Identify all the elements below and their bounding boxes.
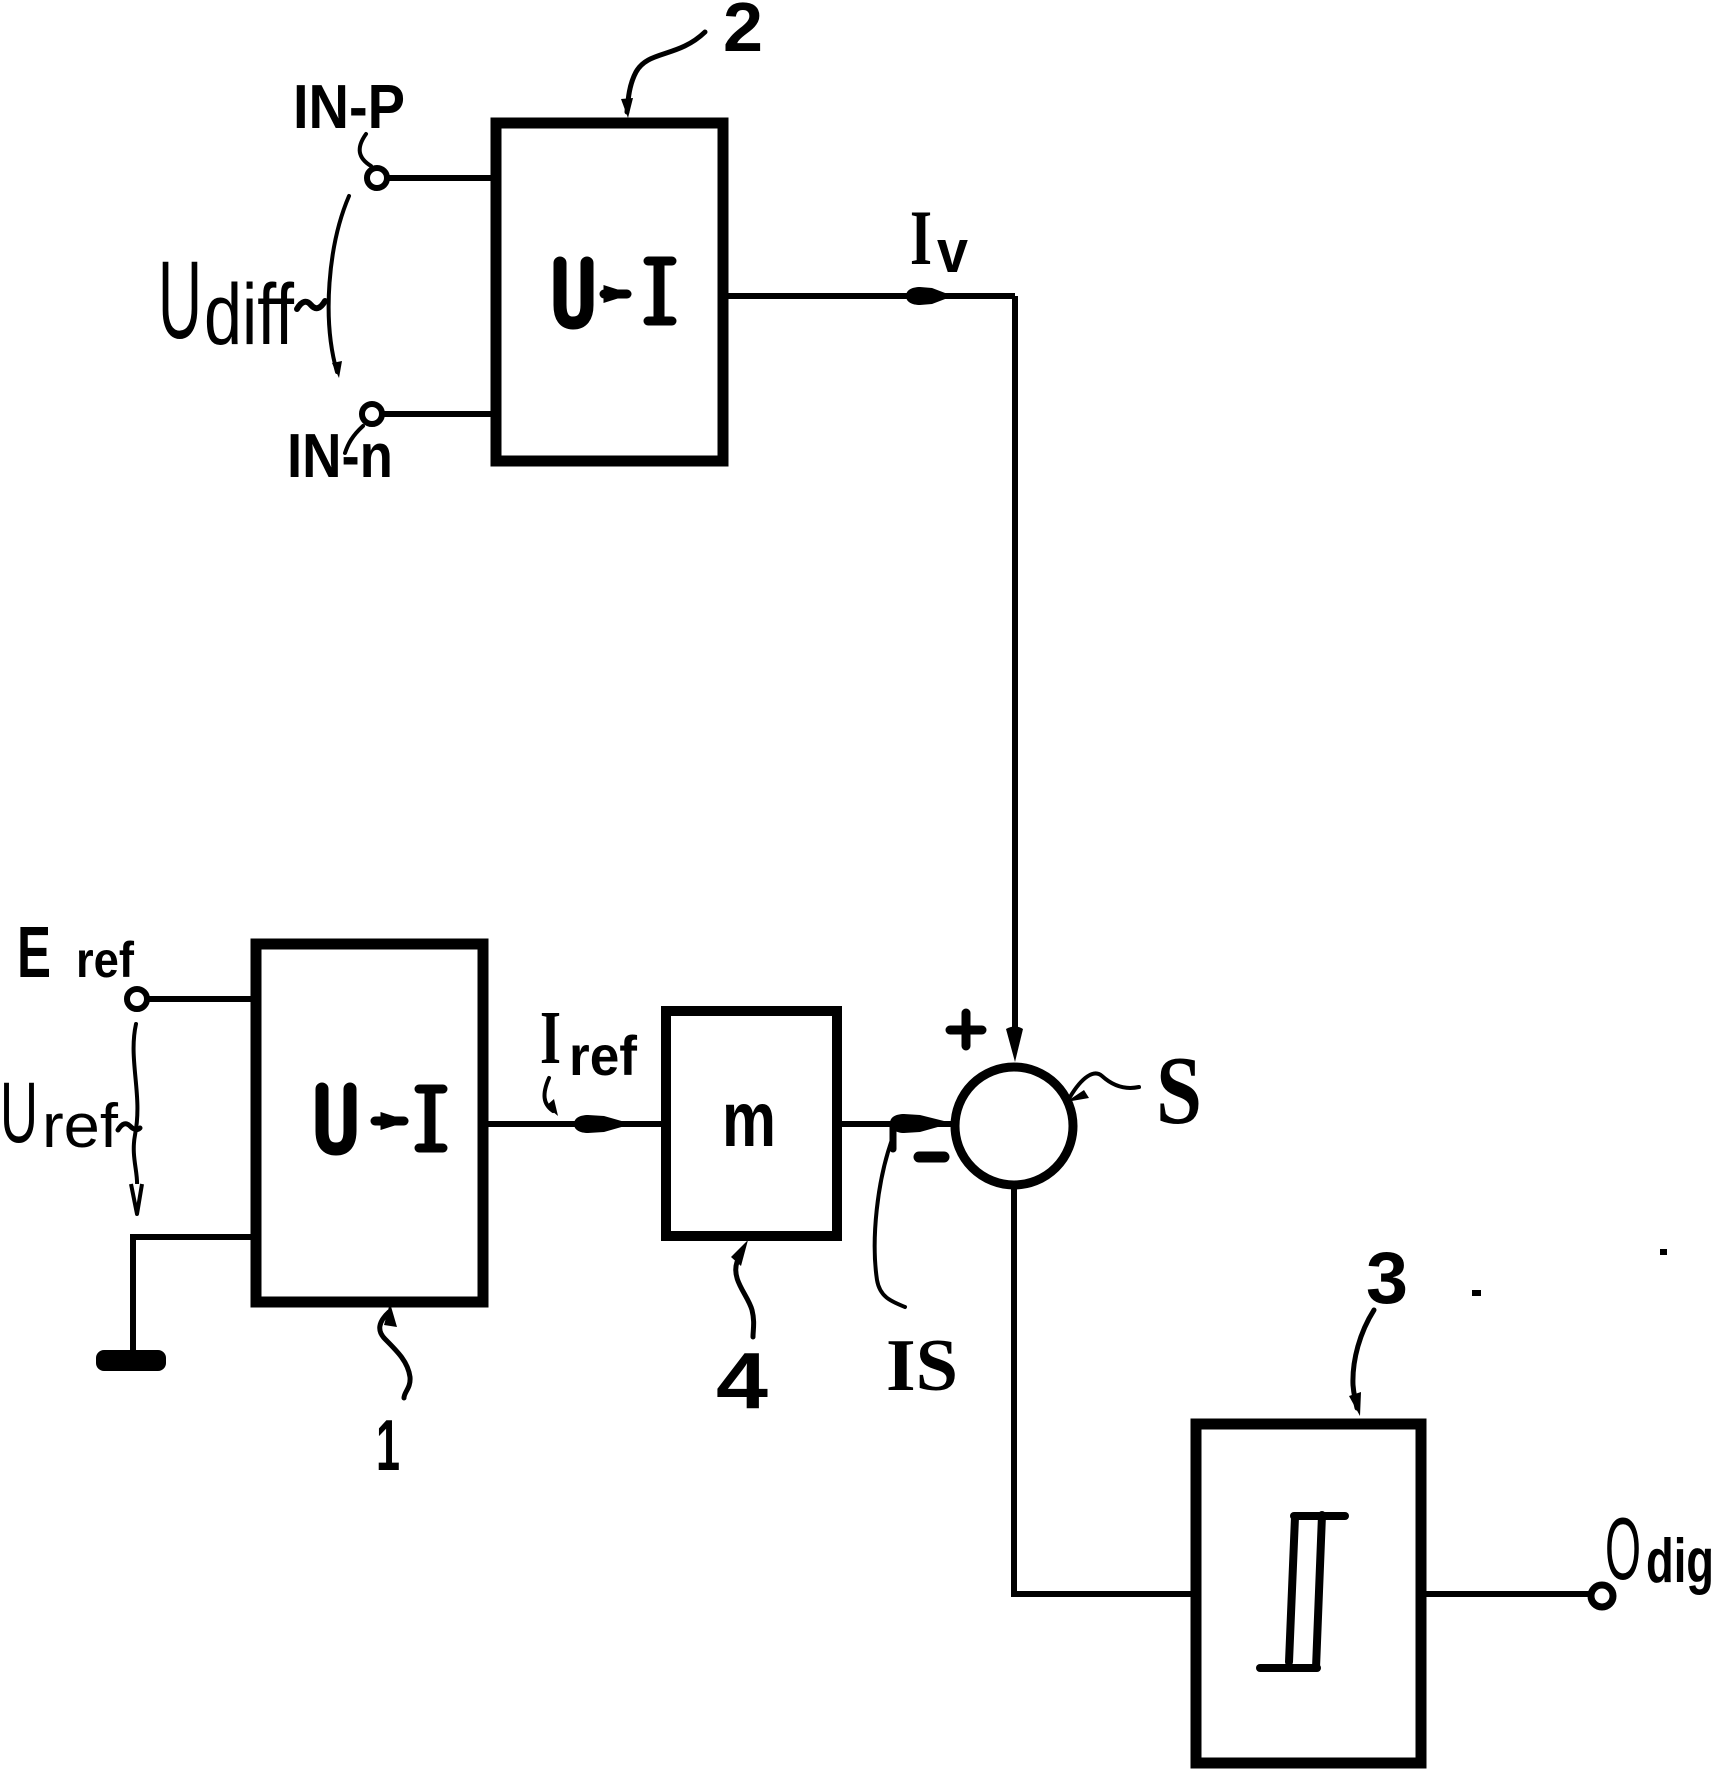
wire Iv vertical down to summer: [1012, 296, 1018, 1035]
leader IN-n: [345, 426, 363, 453]
svg-text:O: O: [1605, 1499, 1641, 1598]
svg-text:m: m: [722, 1075, 776, 1163]
label IS: [886, 1325, 958, 1407]
wire IN-n to block 2: [383, 411, 496, 417]
wire E ref to block 1: [148, 996, 256, 1002]
block 3 comparator with hysteresis: [1196, 1424, 1421, 1763]
terminal IN-n: [362, 404, 382, 424]
svg-text:IN-n: IN-n: [287, 422, 393, 491]
svg-text:diff: diff: [204, 267, 295, 363]
wire block 3 output: [1421, 1591, 1592, 1597]
hysteresis symbol: [1260, 1515, 1345, 1668]
label Iv: [910, 194, 932, 281]
leader line for 4: [736, 1262, 754, 1337]
terminal IN-p: [367, 168, 387, 188]
svg-text:E: E: [17, 913, 51, 993]
leader line for 2: [627, 32, 705, 112]
wire I ref from block1 to m: [483, 1121, 666, 1127]
wire IN-p to block 2: [388, 175, 496, 181]
block U-I converter 2: [496, 123, 723, 461]
svg-text:IN-P: IN-P: [293, 73, 405, 142]
tilde after Udiff: [297, 301, 325, 309]
terminal O dig: [1591, 1585, 1613, 1607]
minus sign: [919, 1152, 944, 1163]
leader line for 1: [380, 1312, 410, 1398]
wire summer down and right to block 3: [1014, 1185, 1196, 1594]
label S: [1156, 1037, 1202, 1145]
leader IN-p: [360, 134, 371, 166]
arrowhead Iv: [906, 287, 953, 305]
block m (multiplier) 4: [666, 1011, 837, 1236]
plus sign: [950, 1013, 982, 1046]
arrowhead I ref: [574, 1115, 632, 1133]
svg-text:IS: IS: [886, 1325, 958, 1407]
svg-text:ref: ref: [76, 932, 134, 988]
leader line for 3: [1353, 1310, 1374, 1408]
svg-text:ref: ref: [569, 1024, 637, 1087]
svg-text:I: I: [910, 194, 932, 281]
arrowhead into summer + input: [1006, 1027, 1023, 1063]
label I ref: [540, 996, 561, 1080]
svg-text:1: 1: [376, 1406, 400, 1486]
leader I ref: [544, 1078, 553, 1111]
svg-text:4: 4: [716, 1336, 769, 1425]
svg-text:I: I: [540, 996, 561, 1080]
tilde after Uref: [118, 1124, 140, 1130]
svg-text:3: 3: [1366, 1238, 1408, 1319]
brace arc for Udiff: [329, 196, 349, 372]
svg-text:2: 2: [723, 0, 763, 66]
svg-text:U: U: [0, 1065, 38, 1161]
wire m to summer: [837, 1121, 952, 1127]
speck 1: [1660, 1249, 1667, 1255]
ground wire: [133, 1237, 256, 1352]
svg-text:dig: dig: [1646, 1527, 1714, 1596]
summing node S: [955, 1067, 1073, 1185]
U->I symbol inside block 2: [560, 261, 672, 323]
terminal E ref: [127, 989, 147, 1009]
svg-text:U: U: [158, 239, 202, 362]
arrowhead into summer - input: [890, 1114, 952, 1133]
U->I symbol inside block 1: [322, 1089, 443, 1149]
leader S: [1070, 1074, 1139, 1097]
leader Uref vertical wavy arrow: [134, 1024, 138, 1186]
svg-text:ref: ref: [42, 1092, 119, 1161]
speck 2: [1472, 1290, 1481, 1296]
svg-text:S: S: [1156, 1037, 1202, 1145]
wire Iv output of block 2: [723, 293, 1015, 299]
ground symbol: [96, 1350, 166, 1371]
leader IS: [875, 1137, 905, 1307]
block U-I converter 1: [256, 944, 483, 1302]
svg-text:v: v: [937, 218, 969, 285]
